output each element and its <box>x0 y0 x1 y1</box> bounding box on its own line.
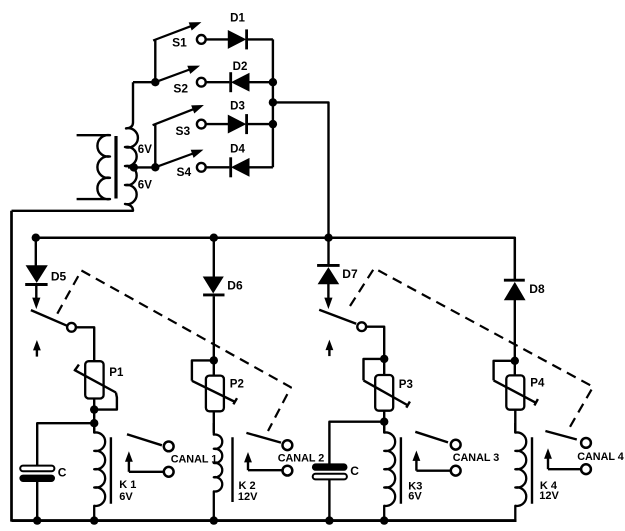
junction dot P2 top <box>210 356 218 364</box>
label C branch3 <box>350 464 359 478</box>
junction dot K2 on bus <box>210 516 218 524</box>
svg-text:6V: 6V <box>138 180 152 192</box>
wire tap to capacitor C branch1 <box>37 423 94 466</box>
svg-text:C: C <box>58 465 67 479</box>
svg-text:P2: P2 <box>230 378 244 390</box>
relay coil K1 <box>94 423 105 521</box>
diode D7 <box>317 265 340 283</box>
junction dot transformer center tap <box>130 163 138 171</box>
relay K3 core bar <box>400 437 402 504</box>
switch S3 contact circle <box>197 120 206 129</box>
transformer T1 center tap wire <box>128 166 155 168</box>
potentiometer P3 wiper loop <box>364 359 385 381</box>
canal4 contact blade <box>545 431 576 440</box>
transformer T1 core <box>114 136 117 199</box>
wire main supply bus <box>34 238 515 279</box>
junction dot branch3 cap tap <box>380 418 388 426</box>
potentiometer P1 wiper arrow <box>74 365 116 393</box>
junction dot K1 on bus <box>90 516 98 524</box>
switch S1 blade <box>153 23 200 41</box>
label D8 <box>529 282 545 296</box>
junction dot bus tap <box>269 98 277 106</box>
junction node branch 2 <box>210 234 218 242</box>
relay coil K3 <box>384 423 395 521</box>
svg-text:D4: D4 <box>230 144 245 156</box>
potentiometer P2 body <box>206 376 224 412</box>
label P3 <box>399 379 413 391</box>
label D5 <box>51 269 67 283</box>
junction dot bus at D2 <box>269 78 277 86</box>
canal2 lower contact circle <box>283 466 293 476</box>
canal2 output arrow <box>245 453 251 470</box>
wire capacitor C branch1 to ground bus <box>36 482 38 521</box>
wire bus to D6 <box>213 238 215 278</box>
label D6 <box>227 278 243 292</box>
label P4 <box>530 378 545 390</box>
svg-text:D3: D3 <box>230 101 245 113</box>
label 6V lower secondary <box>138 180 152 192</box>
label S1 <box>172 36 187 50</box>
capacitor C branch3 bottom plate <box>313 474 347 480</box>
canal3 contact blade <box>415 432 448 443</box>
junction dot S1/S2 feed <box>151 78 159 86</box>
capacitor C branch1 bottom plate <box>20 475 55 481</box>
capacitor C branch1 top plate <box>20 466 54 472</box>
wire tap to capacitor C branch3 <box>329 422 384 465</box>
label K2 <box>239 480 256 492</box>
wire D7 to contact with arrowhead <box>325 284 332 308</box>
label 6V upper secondary <box>138 144 152 156</box>
diode D6 <box>203 277 224 295</box>
label K4 <box>540 480 558 492</box>
potentiometer P4 wiper arrow <box>494 380 538 405</box>
relay K1 core bar <box>110 437 112 504</box>
potentiometer P3 body <box>375 375 393 411</box>
capacitor C branch3 top plate <box>312 464 347 470</box>
actuation arrow branch 3 <box>326 341 332 356</box>
junction dot C branch1 on bus <box>33 516 41 524</box>
wire bus to D7 <box>327 238 329 266</box>
canal1 output wire <box>129 471 164 473</box>
label C branch1 <box>58 465 67 479</box>
junction node branch 1 <box>32 234 40 242</box>
label K2 voltage <box>238 491 258 503</box>
canal4 upper contact circle <box>581 438 591 448</box>
svg-text:6V: 6V <box>138 144 152 156</box>
relay coil K2 <box>214 423 222 521</box>
wire P3 bottom <box>383 411 385 433</box>
label K1 <box>119 479 136 491</box>
potentiometer P4 body <box>506 375 524 409</box>
svg-text:CANAL 3: CANAL 3 <box>453 452 500 464</box>
svg-text:S2: S2 <box>173 81 188 95</box>
svg-text:D5: D5 <box>51 269 67 283</box>
potentiometer P3 wiper arrow <box>364 380 410 407</box>
diode D8 <box>504 280 525 300</box>
canal1 upper contact circle <box>164 442 174 452</box>
label CANAL 1 <box>171 454 218 466</box>
wire P2 bottom <box>213 411 215 433</box>
potentiometer P2 wiper loop <box>192 360 214 380</box>
wire capacitor C branch3 to ground bus <box>328 479 330 520</box>
label K3 <box>408 480 422 492</box>
wire D8 to P4 <box>514 300 516 376</box>
switch S4 contact circle <box>197 163 206 172</box>
svg-text:CANAL 2: CANAL 2 <box>278 453 325 465</box>
switch S3 blade <box>153 106 203 126</box>
wire secondary top to switch junction <box>133 81 155 83</box>
canal2 contact blade <box>246 433 281 443</box>
label P2 <box>230 378 244 390</box>
wire D6 to P2 <box>213 296 215 375</box>
dashed mechanical link 1 (branch1 contact to canal2) <box>57 271 291 432</box>
label K1 voltage <box>119 491 133 503</box>
canal3 lower contact circle <box>451 466 461 476</box>
switch S1 contact circle <box>197 35 206 44</box>
relay contact blade branch 3 <box>319 310 356 324</box>
diode D2 <box>206 72 273 92</box>
svg-text:P4: P4 <box>530 378 545 390</box>
potentiometer P2 wiper arrow <box>192 381 237 405</box>
svg-text:D8: D8 <box>529 282 545 296</box>
label CANAL 3 <box>453 452 500 464</box>
label D7 <box>342 267 358 281</box>
wire bus to D5 <box>35 238 37 267</box>
label P1 <box>109 367 124 379</box>
diode D4 <box>206 157 273 177</box>
transformer T1 primary winding <box>77 135 110 199</box>
junction dot branch1 cap tap <box>90 419 98 427</box>
junction dot S3/S4 feed <box>151 163 159 171</box>
svg-text:D1: D1 <box>230 12 245 24</box>
potentiometer P4 wiper loop <box>494 361 515 381</box>
junction dot C branch3 on bus <box>325 516 333 524</box>
label D4 <box>230 144 245 156</box>
canal1 lower contact circle <box>164 467 174 477</box>
svg-text:K 1: K 1 <box>119 479 136 491</box>
contact circle branch 3 <box>357 322 366 331</box>
canal3 output wire <box>416 470 451 472</box>
wire contact to P3 <box>366 327 384 375</box>
wire P1 bottom <box>93 399 95 433</box>
svg-text:S1: S1 <box>172 36 187 50</box>
canal4 output wire <box>548 468 582 470</box>
svg-text:D2: D2 <box>233 61 248 73</box>
switch S2 blade <box>153 66 199 83</box>
transformer T1 secondary winding (two 6V windings) and bottom return wire <box>12 82 138 211</box>
potentiometer P1 body <box>85 361 103 398</box>
label S3 <box>175 124 190 138</box>
svg-text:6V: 6V <box>119 491 133 503</box>
junction dot bus at D3 <box>269 120 277 128</box>
junction node branch 3 <box>324 234 332 242</box>
wire S1 pivot riser <box>154 39 156 82</box>
relay K4 core bar <box>531 437 533 504</box>
relay K2 core bar <box>231 437 233 502</box>
svg-text:12V: 12V <box>539 490 559 502</box>
label K3 voltage <box>408 491 422 503</box>
canal3 upper contact circle <box>451 440 461 450</box>
label D3 <box>230 101 245 113</box>
label CANAL 2 <box>278 453 325 465</box>
switch S2 contact circle <box>197 78 206 87</box>
svg-text:12V: 12V <box>238 491 258 503</box>
wire D5 to contact with arrowhead <box>33 286 40 308</box>
potentiometer P1 wiper tie to bottom <box>94 393 117 410</box>
contact circle branch 1 <box>67 323 76 332</box>
canal1 contact blade <box>127 434 162 445</box>
canal4 lower contact circle <box>581 464 591 474</box>
svg-text:D7: D7 <box>342 267 358 281</box>
label S4 <box>176 165 191 179</box>
svg-text:CANAL 4: CANAL 4 <box>577 451 624 463</box>
actuation arrow branch 1 <box>34 341 40 356</box>
wire P4 bottom <box>514 410 516 433</box>
svg-text:P1: P1 <box>109 367 124 379</box>
junction dot P4 top <box>511 357 519 365</box>
dashed mechanical link 2 (branch3 contact to canal4) <box>350 268 593 432</box>
junction dot P3 top <box>380 355 388 363</box>
switch S4 blade <box>153 150 203 168</box>
diode D3 <box>206 114 273 134</box>
wire diode cathode bus <box>272 39 274 167</box>
canal4 output arrow <box>545 450 551 470</box>
label D2 <box>233 61 248 73</box>
wire left return rail <box>10 211 13 522</box>
svg-text:S4: S4 <box>176 165 191 179</box>
junction dot P1 wiper tie <box>90 405 98 413</box>
diode D1 <box>206 29 273 49</box>
relay contact blade branch 1 <box>31 310 67 326</box>
svg-text:CANAL 1: CANAL 1 <box>171 454 218 466</box>
label D1 <box>230 12 245 24</box>
wire tap to feeder drop <box>273 102 329 237</box>
svg-text:D6: D6 <box>227 278 243 292</box>
wire contact to P1 <box>76 327 94 361</box>
wire bottom return bus <box>12 519 517 522</box>
junction dot K3 on bus <box>380 516 388 524</box>
svg-text:S3: S3 <box>175 124 190 138</box>
label K4 voltage <box>539 490 559 502</box>
canal2 output wire <box>248 469 283 471</box>
label S2 <box>173 81 188 95</box>
canal2 upper contact circle <box>283 440 293 450</box>
svg-text:6V: 6V <box>408 491 422 503</box>
wire S3 pivot riser <box>154 124 156 167</box>
svg-text:C: C <box>350 464 359 478</box>
svg-text:P3: P3 <box>399 379 413 391</box>
relay coil K4 <box>515 423 526 521</box>
canal3 output arrow <box>413 452 419 471</box>
diode D5 <box>25 266 47 285</box>
canal1 output arrow <box>126 453 132 472</box>
label CANAL 4 <box>577 451 624 463</box>
